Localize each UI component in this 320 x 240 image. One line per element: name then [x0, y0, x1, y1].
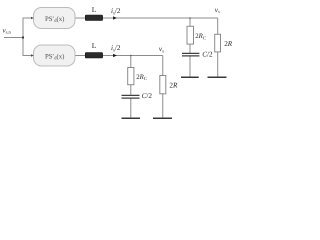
- svg-text:C/2: C/2: [142, 92, 153, 100]
- svg-text:2R: 2R: [169, 82, 178, 90]
- svg-text:L: L: [92, 5, 97, 14]
- svg-text:C/2: C/2: [202, 51, 213, 59]
- svg-text:2R: 2R: [224, 40, 233, 48]
- svg-text:is/2: is/2: [111, 7, 121, 16]
- svg-text:is/2: is/2: [111, 44, 121, 53]
- svg-text:L: L: [92, 41, 97, 50]
